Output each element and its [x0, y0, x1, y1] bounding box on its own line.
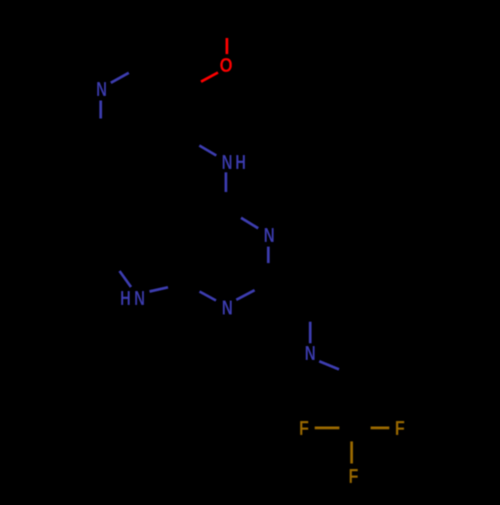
pyrrole HN label — [120, 287, 145, 310]
wire: bond NH-C4 ring A (N half) — [199, 146, 216, 156]
wire: bond N1-C7a (N half) — [200, 292, 217, 301]
svg-text:H: H — [120, 287, 131, 310]
svg-text:F: F — [395, 416, 405, 439]
fluorine F bottom label — [348, 464, 358, 487]
wire: bond N7-C7a (N half) — [150, 287, 169, 291]
amine NH label — [222, 151, 246, 174]
wire: bond NH-C4 pyrimidine (N half) — [225, 172, 228, 192]
wire: ring B bond N-C2' (N half) — [309, 322, 312, 344]
pyrimidine N3 label — [264, 224, 275, 247]
svg-text:F: F — [348, 464, 358, 487]
methoxy O label — [220, 53, 233, 76]
wire: bond F-C of CF3 right (F half) — [371, 427, 390, 430]
pyridine ring A: atom N1 label — [96, 78, 107, 101]
svg-text:F: F — [299, 416, 309, 439]
wire: bond O-CH3 (O half) — [226, 38, 229, 54]
svg-text:N: N — [305, 342, 316, 365]
wire: ring A bond N1-C2 (N half) — [111, 73, 129, 83]
wire: bond N3-C4 (N half) — [241, 218, 258, 229]
wire: bond N1-C2 (N half) — [236, 290, 254, 300]
svg-text:N: N — [96, 78, 107, 101]
svg-text:O: O — [220, 53, 233, 76]
fluorine F right label — [395, 416, 405, 439]
pyridine ring B N label — [305, 342, 316, 365]
svg-text:N: N — [264, 224, 275, 247]
svg-text:N: N — [134, 287, 145, 310]
wire: ring B bond N-C6' (N half) — [319, 361, 339, 369]
wire: bond N7-C6 pyrrole (N half) — [120, 271, 132, 287]
pyrimidine N1 label — [222, 296, 233, 319]
wire: bond F-C of CF3 left (F half) — [315, 427, 340, 430]
svg-text:H: H — [235, 151, 246, 174]
svg-text:N: N — [222, 296, 233, 319]
wire: bond O-C3 ring A (O half) — [201, 73, 218, 82]
wire: bond F-C of CF3 bottom (F half) — [350, 441, 353, 463]
wire: bond N3-C2 (N half) — [267, 247, 270, 264]
fluorine F left label — [299, 416, 309, 439]
wire: ring A bond N1-C6 (N half) — [99, 101, 102, 119]
svg-text:N: N — [222, 151, 233, 174]
